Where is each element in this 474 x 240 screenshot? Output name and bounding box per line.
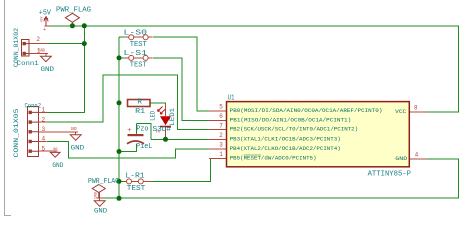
svg-text:L-S0: L-S0	[124, 29, 148, 37]
svg-text:Conn1: Conn1	[17, 60, 39, 67]
svg-text:1: 1	[219, 151, 223, 158]
svg-text:GND: GND	[395, 155, 408, 162]
svg-text:8: 8	[414, 105, 418, 112]
svg-text:L-S1: L-S1	[124, 50, 148, 58]
svg-text:5: 5	[219, 104, 223, 111]
svg-text:+: +	[127, 127, 131, 135]
svg-text:CONN_01X05: CONN_01X05	[13, 108, 20, 157]
svg-text:7: 7	[219, 122, 223, 129]
svg-text:5: 5	[42, 145, 46, 152]
svg-text:L-R1: L-R1	[125, 173, 144, 181]
svg-text:PieL: PieL	[136, 143, 152, 151]
svg-text:VCC: VCC	[395, 108, 407, 115]
svg-text:4: 4	[415, 151, 419, 158]
svg-text:+5V: +5V	[41, 16, 45, 23]
svg-text:TEST: TEST	[130, 62, 147, 70]
svg-text:CONN_01X02: CONN_01X02	[13, 28, 20, 67]
svg-text:PB0(MOSI/DI/SDA/AIN0/OC0A/OC1A: PB0(MOSI/DI/SDA/AIN0/OC0A/OC1A/AREF/PCIN…	[230, 107, 383, 114]
svg-text:2: 2	[219, 132, 223, 139]
svg-text:GND: GND	[41, 66, 55, 73]
svg-text:2: 2	[156, 130, 162, 133]
svg-text:3: 3	[42, 126, 46, 133]
svg-text:GND: GND	[94, 208, 107, 215]
svg-text:TEST: TEST	[127, 185, 146, 193]
svg-text:LED: LED	[150, 110, 157, 120]
svg-text:Conn2: Conn2	[25, 102, 42, 109]
svg-text:PB2(SCK/USCK/SCL/T0/INT0/ADC1/: PB2(SCK/USCK/SCL/T0/INT0/ADC1/PCINT2)	[230, 126, 358, 133]
svg-text:4: 4	[42, 136, 46, 143]
svg-text:Pzo: Pzo	[136, 126, 148, 134]
svg-text:U1: U1	[228, 95, 235, 103]
svg-text:ATTINY85-P: ATTINY85-P	[368, 170, 411, 178]
svg-text:+5V: +5V	[39, 10, 52, 18]
svg-text:6: 6	[219, 113, 223, 120]
svg-text:PB1(MISO/DO/AIN1/OC0B/OC1A/PCI: PB1(MISO/DO/AIN1/OC0B/OC1A/PCINT1)	[230, 117, 352, 124]
svg-text:PB3(XTAL1/CLKI/OC1B/ADC3/PCINT: PB3(XTAL1/CLKI/OC1B/ADC3/PCINT3)	[230, 135, 341, 142]
svg-text:1: 1	[42, 107, 46, 114]
svg-text:PWR_FLAG: PWR_FLAG	[88, 178, 119, 186]
svg-text:PWR_FLAG: PWR_FLAG	[56, 7, 91, 15]
svg-text:GND: GND	[52, 162, 63, 169]
svg-text:R1: R1	[135, 108, 145, 116]
svg-text:GND: GND	[39, 50, 46, 54]
svg-text:PB4(XTAL2/CLKO/OC1B/ADC2/PCINT: PB4(XTAL2/CLKO/OC1B/ADC2/PCINT4)	[230, 145, 341, 152]
svg-text:2: 2	[42, 116, 46, 123]
svg-text:GND: GND	[71, 144, 85, 151]
svg-text:PB5(RESET/dW/ADC0/PCINT5): PB5(RESET/dW/ADC0/PCINT5)	[230, 155, 317, 162]
svg-text:2: 2	[36, 36, 40, 43]
svg-text:LED1: LED1	[169, 107, 176, 125]
svg-text:GND: GND	[53, 148, 58, 152]
svg-text:GND: GND	[71, 128, 77, 132]
svg-text:TEST: TEST	[130, 41, 147, 49]
svg-text:3: 3	[219, 142, 223, 149]
svg-text:GND: GND	[94, 191, 98, 198]
svg-text:+: +	[43, 27, 46, 33]
